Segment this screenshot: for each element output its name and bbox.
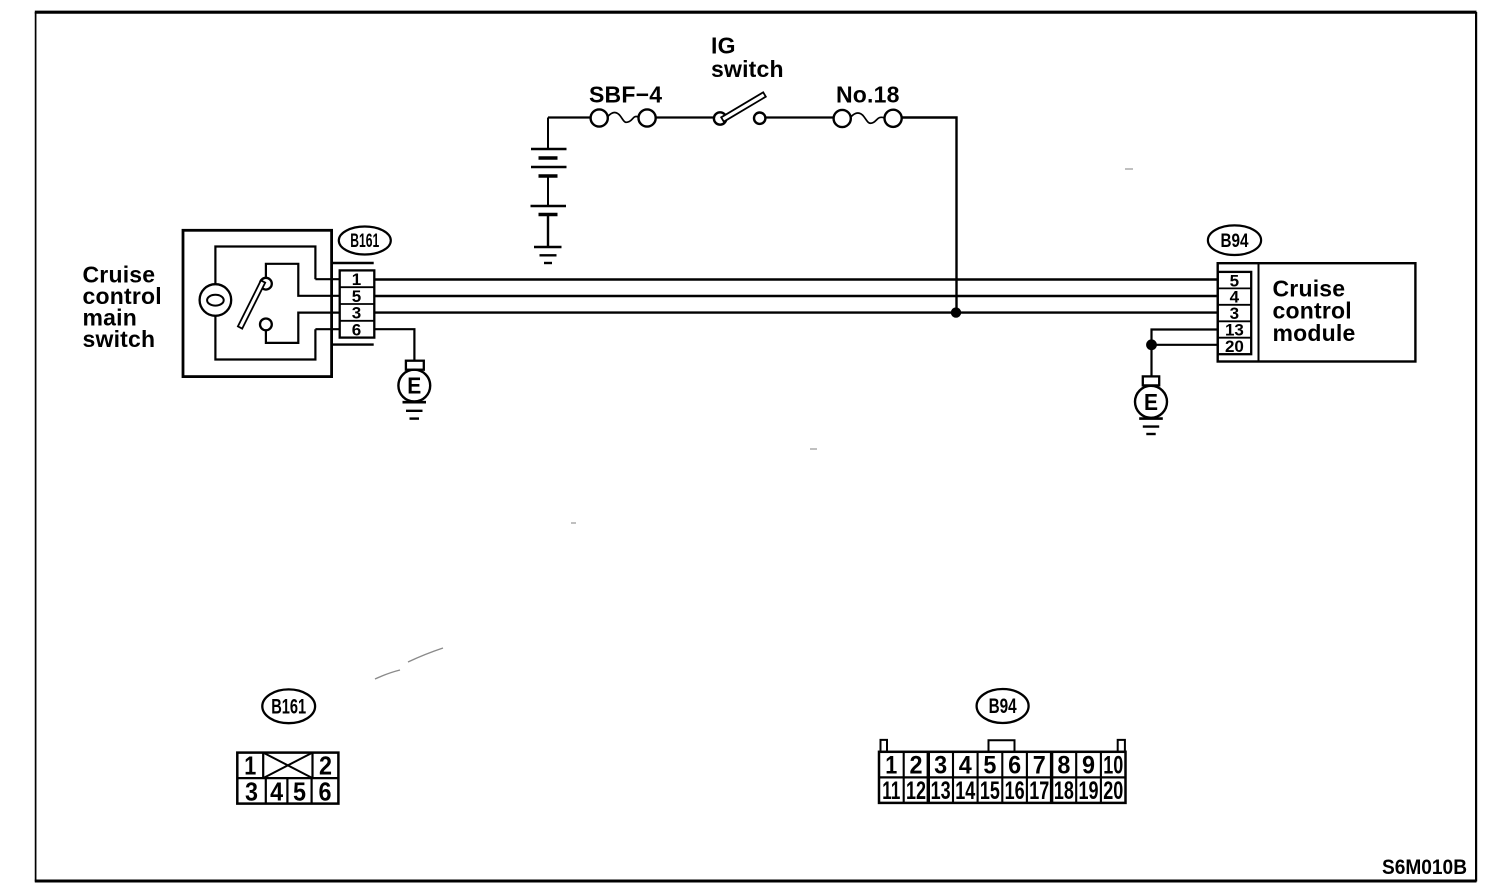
battery [531, 118, 567, 264]
svg-text:6: 6 [352, 320, 361, 339]
bottom B161 pinout grid [237, 753, 338, 804]
ground E left terminal [406, 361, 424, 370]
ground E right terminal [1143, 376, 1159, 385]
wire pin3 to module pin3 [374, 311, 1217, 313]
svg-text:switch: switch [711, 56, 784, 82]
ground hatch left [403, 401, 427, 404]
wire battery to SBF-4 [548, 116, 591, 118]
svg-text:B94: B94 [989, 695, 1017, 718]
svg-text:B161: B161 [350, 231, 379, 252]
wire top contact to pin 5 [266, 264, 340, 296]
svg-text:E: E [407, 373, 421, 399]
wire housing to pin 6 [315, 328, 339, 330]
svg-text:5: 5 [983, 752, 996, 780]
wire No.18 to corner and down [902, 118, 957, 313]
bottom B161 oval [262, 689, 315, 723]
wire pin1 to module pin5 [374, 278, 1217, 280]
fuse SBF-4 [591, 109, 656, 126]
wire module pin20 to ground junction [1152, 344, 1218, 346]
connector bracket bottom [332, 343, 374, 345]
svg-text:17: 17 [1029, 777, 1049, 805]
svg-text:19: 19 [1079, 777, 1099, 805]
bottom B94 pinout grid [879, 752, 1126, 803]
connector B94 oval [1208, 225, 1261, 255]
svg-text:No.18: No.18 [836, 82, 900, 108]
svg-text:SBF−4: SBF−4 [589, 82, 662, 108]
scan scratch marks [375, 648, 443, 679]
switch lever [238, 280, 265, 328]
svg-text:IG: IG [711, 33, 736, 59]
wire SBF-4 to IG switch [656, 116, 714, 118]
module divider [1258, 263, 1260, 361]
module connector pin box [1218, 272, 1252, 354]
svg-text:14: 14 [955, 777, 975, 805]
connector B161 pin box [340, 270, 375, 337]
svg-text:10: 10 [1103, 752, 1123, 780]
ground E left circle [398, 370, 430, 402]
IG switch [714, 92, 766, 124]
svg-text:switch: switch [83, 326, 156, 352]
svg-text:2: 2 [910, 752, 923, 780]
switch contact bottom [260, 319, 272, 331]
svg-text:7: 7 [1033, 752, 1046, 780]
lamp [200, 284, 232, 316]
svg-text:3: 3 [934, 752, 947, 780]
main switch outer box [183, 230, 332, 376]
svg-text:module: module [1273, 320, 1356, 346]
svg-text:11: 11 [882, 777, 900, 805]
svg-text:1: 1 [885, 752, 897, 780]
connector bracket top [332, 262, 374, 264]
svg-text:15: 15 [980, 777, 1000, 805]
svg-text:B94: B94 [1221, 231, 1249, 252]
wire junction to ground [1150, 345, 1152, 377]
svg-text:4: 4 [270, 777, 283, 807]
connector B161 oval [339, 227, 391, 255]
svg-text:8: 8 [1057, 752, 1070, 780]
svg-text:9: 9 [1082, 752, 1095, 780]
junction dot [951, 307, 961, 317]
svg-text:12: 12 [906, 777, 926, 805]
svg-text:18: 18 [1054, 777, 1074, 805]
svg-text:5: 5 [293, 777, 306, 807]
ground E right circle [1135, 386, 1167, 418]
svg-text:6: 6 [1008, 752, 1021, 780]
svg-text:B161: B161 [271, 696, 306, 719]
svg-text:20: 20 [1225, 337, 1244, 356]
bottom B94 oval [977, 689, 1029, 723]
wire bottom contact to pin 3 [266, 313, 340, 343]
crossed blank cell [263, 753, 312, 779]
svg-text:13: 13 [931, 777, 951, 805]
svg-text:S6M010B: S6M010B [1382, 856, 1467, 879]
svg-text:4: 4 [959, 752, 972, 780]
fuse No.18 [834, 110, 902, 127]
wire module pin13 to ground junction [1152, 330, 1218, 345]
junction dot right [1146, 339, 1157, 350]
main switch inner housing [215, 247, 315, 360]
wire IG switch to No.18 [765, 116, 833, 118]
svg-text:3: 3 [245, 777, 258, 807]
svg-text:20: 20 [1103, 777, 1123, 805]
svg-text:E: E [1144, 389, 1158, 415]
switch contact top [260, 278, 272, 290]
cruise control module box [1218, 263, 1416, 361]
wire pin6 to ground [374, 329, 414, 361]
ground hatch right [1139, 417, 1163, 420]
svg-text:6: 6 [319, 777, 332, 807]
svg-text:16: 16 [1005, 777, 1025, 805]
bottom B94 connector tabs [881, 740, 888, 752]
wire pin5 to module pin4 [374, 295, 1217, 297]
wire housing to pin 1 [315, 278, 339, 280]
